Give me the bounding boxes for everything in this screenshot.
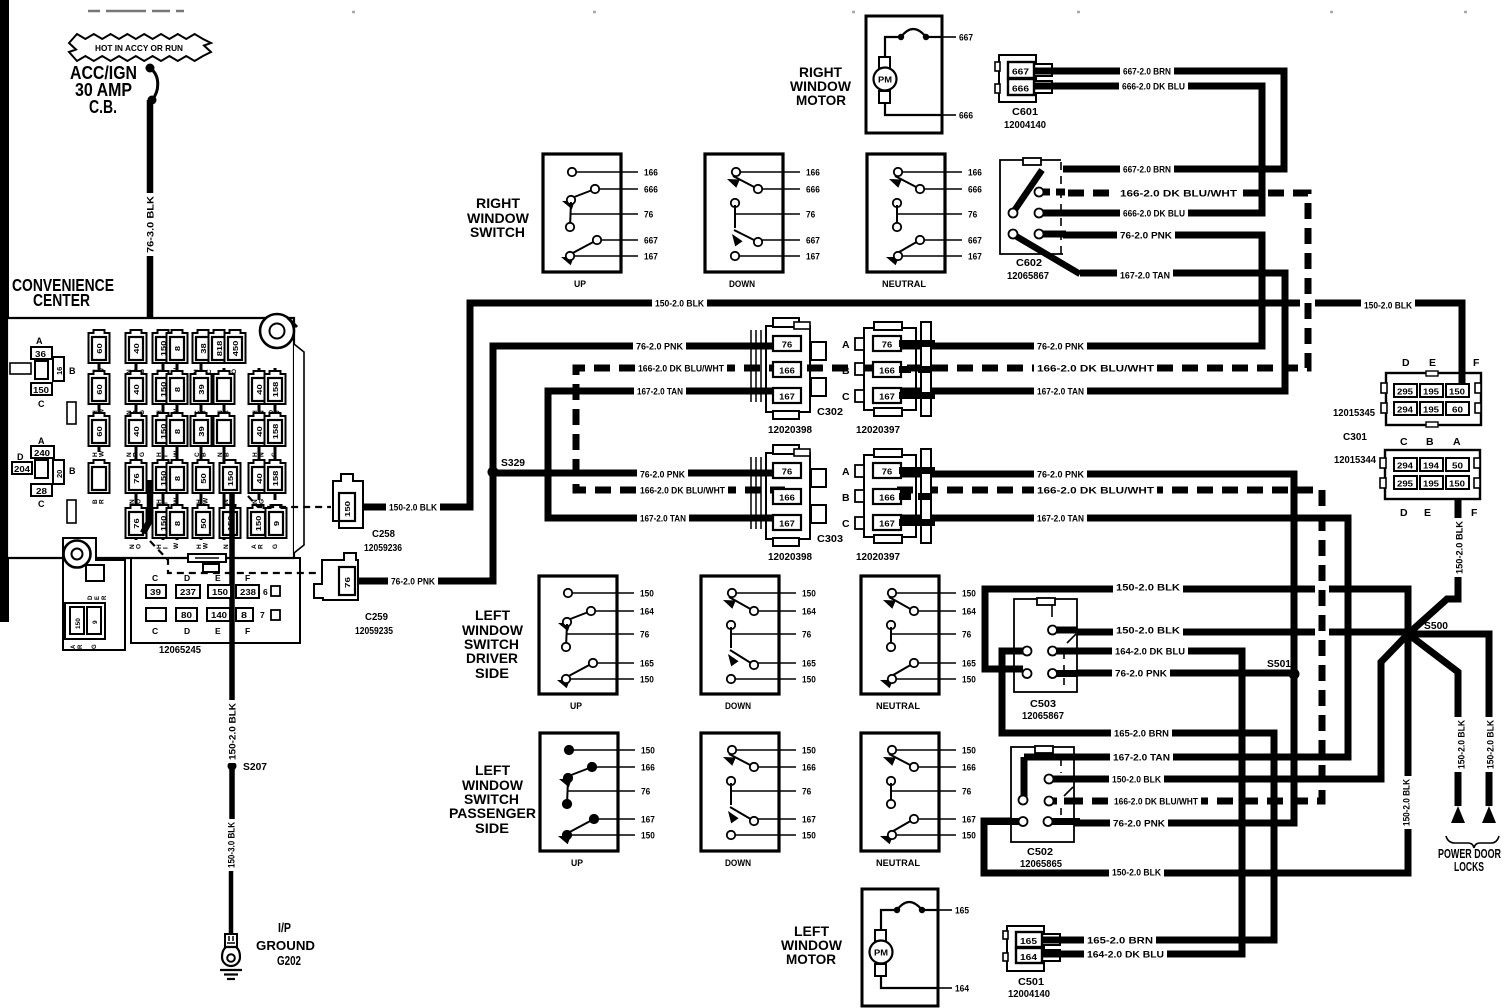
svg-text:76-2.0 PNK: 76-2.0 PNK [391, 576, 435, 587]
wire label 164-2.0 DK BLU at y651 [1112, 645, 1188, 658]
svg-text:GROUND: GROUND [256, 938, 315, 953]
wire 166-2.0 DK BLU/WHT riser C302-B/C303-B dashed [576, 368, 785, 490]
svg-text:165: 165 [955, 906, 969, 916]
svg-text:UP: UP [571, 858, 584, 869]
svg-text:666: 666 [806, 184, 820, 194]
svg-text:166: 166 [879, 367, 895, 376]
svg-text:C602: C602 [1016, 258, 1042, 269]
svg-text:76: 76 [802, 786, 811, 796]
svg-text:28: 28 [36, 487, 48, 496]
svg-text:A: A [36, 336, 43, 346]
svg-text:W: W [203, 542, 210, 549]
svg-text:W: W [173, 450, 180, 457]
fuse 38 at (203,348) [193, 330, 214, 374]
svg-text:SIDE: SIDE [475, 665, 509, 681]
svg-text:C258: C258 [372, 529, 395, 540]
tab connector 150/9 [86, 565, 104, 581]
svg-text:167-2.0 TAN: 167-2.0 TAN [1113, 752, 1170, 763]
blank slots [67, 402, 76, 424]
fuse 8 at (177,523) [167, 505, 188, 549]
svg-text:76: 76 [782, 468, 793, 477]
wire label 150-2.0 BLK at y779 [1109, 773, 1164, 786]
fuse 150 at (163,523) [153, 505, 174, 549]
switch left driver DOWN [701, 576, 816, 712]
svg-text:B: B [201, 452, 208, 457]
fuse 40 at (136,348) [126, 330, 147, 374]
svg-text:166: 166 [879, 494, 895, 503]
wire label 150-2.0 BLK at y587 [1113, 581, 1183, 594]
svg-text:166: 166 [641, 762, 655, 772]
wire 666-2.0 DK BLU C601 to C602 [1046, 86, 1262, 213]
svg-text:39: 39 [150, 588, 162, 597]
svg-text:76: 76 [962, 629, 971, 639]
wire label 150-2.0 BLK at y872 [1109, 866, 1164, 879]
svg-text:76: 76 [132, 473, 141, 483]
svg-text:PASSENGER: PASSENGER [449, 805, 536, 821]
wire label 76-2.0 PNK at y346 [1034, 340, 1087, 353]
svg-text:150: 150 [640, 674, 654, 684]
connector C602 [1000, 160, 1063, 254]
svg-text:B: B [224, 452, 231, 457]
svg-text:150: 150 [962, 830, 976, 840]
svg-text:76-2.0 PNK: 76-2.0 PNK [1115, 668, 1167, 679]
svg-text:C: C [152, 626, 158, 636]
connector C502 [1011, 747, 1074, 842]
svg-text:E: E [1429, 357, 1436, 369]
connector pair C302 [751, 318, 935, 419]
svg-text:MOTOR: MOTOR [786, 951, 836, 967]
wire 150-2.0 BLK S500 to power door lock left [1408, 634, 1458, 806]
svg-text:12004140: 12004140 [1004, 120, 1046, 131]
connector C501 [1007, 926, 1044, 971]
wire label 150-2.0 BLK S500 down [1400, 776, 1413, 829]
svg-text:818: 818 [215, 341, 224, 357]
svg-text:150: 150 [641, 745, 655, 755]
wire 76-3.0 BLK into fuse 76 [143, 480, 150, 533]
wire label 76-2.0 PNK at y346 [633, 340, 686, 353]
svg-text:167-2.0 TAN: 167-2.0 TAN [637, 386, 683, 397]
svg-text:76-2.0 PNK: 76-2.0 PNK [640, 469, 685, 480]
svg-text:C: C [842, 391, 850, 403]
svg-text:12020398: 12020398 [768, 425, 812, 436]
svg-text:8: 8 [173, 521, 182, 526]
wire 76-2.0 PNK S329 to C303-A [493, 470, 785, 477]
left window motor [862, 889, 969, 1006]
wire 76-2.0 PNK C259 riser to C302-A [357, 346, 785, 581]
wire 150-2.0 BLK S500 to power door lock right [1408, 634, 1489, 806]
wire label 667-2.0 BRN at y71 [1120, 65, 1174, 78]
fuse 40 at (136,431) [126, 413, 147, 457]
fuse 40 at (259,389) [249, 371, 270, 415]
svg-text:D: D [184, 626, 190, 636]
svg-text:164: 164 [802, 606, 816, 616]
svg-text:76: 76 [640, 629, 649, 639]
svg-text:9: 9 [92, 620, 99, 624]
svg-text:666: 666 [959, 111, 973, 121]
wire label 166-2.0 DK BLU/WHT at y368 [635, 362, 727, 375]
svg-text:12015345: 12015345 [1333, 408, 1375, 419]
svg-text:D: D [184, 573, 190, 583]
svg-text:165-2.0 BRN: 165-2.0 BRN [1114, 728, 1169, 739]
svg-text:150: 150 [226, 471, 235, 487]
fuse 60 at (99,348) [89, 330, 110, 374]
svg-text:C601: C601 [1012, 107, 1038, 118]
wire label 150-2.0 BLK PDL left [1455, 717, 1468, 772]
wire label 166-2.0 DK BLU/WHT at y801 [1111, 795, 1201, 808]
fuse 150 at (258,523) [248, 505, 269, 549]
svg-text:667: 667 [959, 33, 973, 43]
svg-text:450: 450 [231, 341, 240, 357]
fuse 50 at (203,478) [193, 460, 214, 504]
svg-text:167: 167 [802, 814, 816, 824]
fuse 60 at (99,389) [89, 371, 110, 415]
circuit breaker symbol [146, 64, 155, 73]
svg-text:166: 166 [802, 762, 816, 772]
svg-text:150-2.0 BLK: 150-2.0 BLK [1116, 582, 1180, 593]
svg-text:667-2.0 BRN: 667-2.0 BRN [1123, 66, 1171, 77]
svg-text:RIGHT: RIGHT [476, 195, 520, 211]
wire label 166-2.0 DK BLU/WHT at y490 [637, 484, 728, 497]
svg-text:150: 150 [33, 386, 50, 395]
fuse 150 at (230,478) [220, 460, 241, 504]
svg-text:40: 40 [132, 343, 141, 353]
svg-text:12020397: 12020397 [856, 425, 900, 436]
wire 164-2.0 DK BLU C503 to C501 [1052, 651, 1242, 954]
svg-text:166-2.0 DK BLU/WHT: 166-2.0 DK BLU/WHT [1120, 188, 1237, 199]
svg-text:240: 240 [34, 449, 51, 458]
wire label 167-2.0 TAN at y391 [1034, 385, 1087, 398]
svg-text:158: 158 [271, 424, 280, 440]
svg-text:150: 150 [345, 501, 352, 517]
svg-text:150: 150 [1449, 388, 1466, 397]
svg-text:W: W [173, 497, 180, 504]
svg-text:150: 150 [212, 588, 229, 597]
svg-text:167: 167 [968, 251, 982, 261]
svg-text:150: 150 [802, 674, 816, 684]
svg-text:167: 167 [879, 393, 895, 402]
svg-text:167-2.0 TAN: 167-2.0 TAN [1037, 386, 1084, 397]
svg-text:76: 76 [641, 786, 650, 796]
fuse 150 at (163,478) [153, 460, 174, 504]
wire 76-2.0 PNK C503 to S501 [1052, 670, 1292, 677]
svg-text:76-3.0 BLK: 76-3.0 BLK [145, 196, 156, 253]
svg-text:LEFT: LEFT [475, 762, 510, 778]
svg-text:667: 667 [644, 235, 658, 245]
svg-text:LOCKS: LOCKS [1454, 859, 1484, 874]
svg-text:D: D [17, 452, 24, 462]
wire 150-2.0 BLK C301-F down to S500 [1408, 488, 1458, 634]
svg-text:C303: C303 [817, 534, 843, 545]
svg-text:40: 40 [255, 384, 264, 394]
svg-text:C259: C259 [365, 612, 388, 623]
switch left driver NEUTRAL [861, 576, 976, 712]
fuse blank at (99,478) [89, 460, 110, 504]
svg-text:167: 167 [779, 393, 795, 402]
svg-text:150-2.0 BLK: 150-2.0 BLK [1112, 774, 1161, 785]
svg-text:76: 76 [882, 468, 893, 477]
wire label 167-2.0 TAN at y518 [1034, 512, 1087, 525]
splice S207 [228, 762, 237, 771]
svg-text:B: B [1426, 436, 1434, 448]
svg-text:DRIVER: DRIVER [466, 650, 518, 666]
svg-text:G: G [92, 644, 98, 649]
svg-text:A: A [842, 466, 850, 478]
fuse 76 at (136,478) [126, 460, 147, 504]
svg-text:76: 76 [962, 786, 971, 796]
wire 167-2.0 TAN C602 to C302-C [897, 273, 1285, 391]
svg-text:165: 165 [1020, 937, 1038, 946]
page scan border line [0, 0, 9, 622]
connector C301 upper 12015345 [1386, 373, 1481, 425]
svg-text:165: 165 [962, 658, 976, 668]
power door locks arrows [1451, 806, 1465, 823]
svg-text:W: W [173, 542, 180, 549]
fuse 8 at (177,348) [167, 330, 188, 374]
svg-text:166-2.0 DK BLU/WHT: 166-2.0 DK BLU/WHT [638, 363, 724, 374]
wire 150-2.0 BLK C503 to S500 [1051, 629, 1408, 636]
svg-text:666-2.0 DK BLU: 666-2.0 DK BLU [1122, 81, 1185, 92]
wire label 166-2.0 DK BLU/WHT at y368 [1034, 362, 1157, 375]
fuse 39 at (201,389) [191, 371, 212, 415]
svg-text:E: E [1424, 507, 1431, 519]
svg-text:295: 295 [1397, 480, 1414, 489]
wire label 167-2.0 TAN at y391 [634, 385, 686, 398]
svg-text:80: 80 [181, 611, 193, 620]
wire 76-3.0 BLK label [144, 193, 157, 256]
dashed lead to C259 [150, 541, 316, 573]
svg-text:167: 167 [879, 520, 895, 529]
svg-text:N: N [259, 452, 266, 457]
svg-text:O: O [136, 544, 143, 549]
svg-text:150-2.0 BLK: 150-2.0 BLK [1401, 779, 1412, 826]
svg-text:76-2.0 PNK: 76-2.0 PNK [636, 341, 683, 352]
svg-text:167-2.0 TAN: 167-2.0 TAN [1037, 513, 1084, 524]
ground symbol G202 [220, 970, 242, 979]
wire 150-2.0 BLK label [226, 700, 239, 763]
svg-text:60: 60 [95, 343, 104, 353]
svg-text:166-2.0 DK BLU/WHT: 166-2.0 DK BLU/WHT [1114, 796, 1198, 807]
fuse block lower panel [146, 554, 280, 636]
svg-text:C: C [152, 573, 158, 583]
fuse 158 at (275,389) [265, 371, 286, 415]
svg-text:LEFT: LEFT [475, 607, 510, 623]
svg-text:S207: S207 [243, 761, 267, 773]
svg-text:C.B.: C.B. [89, 97, 117, 117]
svg-text:C502: C502 [1027, 847, 1053, 858]
svg-text:W: W [99, 450, 106, 457]
svg-text:12020397: 12020397 [856, 552, 900, 563]
switch left driver UP [539, 576, 654, 712]
wire label 76-2.0 PNK at y581 [388, 575, 438, 588]
svg-text:166: 166 [962, 762, 976, 772]
svg-text:MOTOR: MOTOR [796, 92, 846, 108]
svg-text:C: C [38, 399, 45, 409]
svg-text:G: G [259, 499, 266, 504]
svg-text:150: 150 [1449, 480, 1466, 489]
svg-text:8: 8 [173, 346, 182, 351]
svg-text:NEUTRAL: NEUTRAL [876, 858, 920, 869]
svg-text:NEUTRAL: NEUTRAL [882, 279, 926, 290]
wire label 667-2.0 BRN at y169 [1120, 163, 1174, 176]
dashed lead to C258 [248, 496, 331, 507]
svg-text:60: 60 [1452, 406, 1464, 415]
svg-text:150: 150 [254, 516, 263, 532]
svg-text:12059236: 12059236 [364, 543, 402, 554]
svg-text:39: 39 [197, 426, 206, 436]
svg-text:150-2.0 BLK: 150-2.0 BLK [1485, 720, 1496, 769]
connector C301 lower 12015344 [1385, 450, 1480, 499]
svg-text:667: 667 [806, 235, 820, 245]
fuse 9 at (276,523) [266, 505, 287, 549]
svg-text:R: R [258, 544, 265, 549]
wire 166-2.0 DK BLU/WHT C602 to C302-B dashed [785, 193, 1308, 368]
svg-text:F: F [1471, 507, 1478, 519]
svg-text:C503: C503 [1030, 699, 1056, 710]
svg-text:E: E [215, 573, 221, 583]
svg-text:SWITCH: SWITCH [470, 224, 525, 240]
svg-text:60: 60 [95, 384, 104, 394]
fuse 40 at (259,431) [249, 413, 270, 457]
svg-text:150: 150 [962, 745, 976, 755]
svg-text:R: R [102, 595, 108, 600]
svg-text:76-2.0 PNK: 76-2.0 PNK [1037, 469, 1084, 480]
svg-text:167-2.0 TAN: 167-2.0 TAN [1120, 270, 1170, 281]
svg-text:667: 667 [968, 235, 982, 245]
wire 150-2.0 BLK C258 to bus to C301-F [357, 303, 1462, 507]
fuse 150 at (163,389) [153, 371, 174, 415]
svg-text:12065867: 12065867 [1022, 711, 1064, 722]
svg-text:40: 40 [255, 426, 264, 436]
wire label 167-2.0 TAN at y275 [1117, 269, 1173, 282]
fuse 8 at (177,389) [167, 371, 188, 415]
svg-text:F: F [245, 626, 250, 636]
wire label 167-2.0 TAN at y518 [637, 512, 689, 525]
fuse 76 at (136,523) [126, 505, 147, 549]
wire 150-2.0 BLK S500 up loop to C503 [985, 589, 1408, 669]
svg-text:167: 167 [806, 251, 820, 261]
wire 76-3.0 BLK [147, 100, 154, 480]
svg-text:166: 166 [806, 167, 820, 177]
wire label 165-2.0 BRN at y940 [1084, 934, 1156, 947]
switch right window UP [543, 154, 658, 290]
svg-text:76-2.0 PNK: 76-2.0 PNK [1120, 230, 1172, 241]
connector C601 [999, 55, 1036, 102]
svg-text:PM: PM [878, 75, 892, 85]
wire 150-2.0 BLK S500 down to C502 loop [984, 634, 1408, 873]
fuse 158 at (275,478) [265, 460, 286, 493]
svg-text:238: 238 [240, 588, 257, 597]
svg-text:A: A [1453, 436, 1461, 448]
svg-text:C: C [1400, 436, 1408, 448]
fuse 8 at (177,431) [167, 413, 188, 457]
fuse blank at (224,431) [214, 413, 235, 457]
right window motor [866, 16, 973, 133]
svg-text:39: 39 [197, 384, 206, 394]
wire label 666-2.0 DK BLU at y86 [1119, 80, 1188, 93]
svg-text:165: 165 [802, 658, 816, 668]
svg-text:S500: S500 [1424, 620, 1448, 632]
mounting hole top-right [260, 314, 294, 348]
svg-text:150-2.0 BLK: 150-2.0 BLK [1116, 625, 1180, 636]
svg-text:667: 667 [1012, 68, 1030, 77]
switch left passenger NEUTRAL [861, 733, 976, 869]
wire label 150-2.0 BLK at y507 [386, 501, 440, 514]
svg-text:150-2.0 BLK: 150-2.0 BLK [1456, 720, 1467, 769]
svg-text:9: 9 [272, 521, 281, 526]
svg-text:166-2.0 DK BLU/WHT: 166-2.0 DK BLU/WHT [1037, 485, 1154, 496]
svg-text:A: A [842, 339, 850, 351]
svg-text:150-2.0 BLK: 150-2.0 BLK [655, 298, 704, 309]
svg-text:12020398: 12020398 [768, 552, 812, 563]
svg-text:G: G [272, 544, 279, 549]
svg-text:G202: G202 [277, 953, 301, 968]
svg-text:8: 8 [241, 611, 248, 620]
svg-text:8: 8 [173, 387, 182, 392]
svg-text:12065867: 12065867 [1007, 271, 1049, 282]
fuse 158 at (275,431) [265, 413, 286, 457]
svg-text:7: 7 [260, 610, 265, 620]
svg-text:76: 76 [802, 629, 811, 639]
wire 165-2.0 BRN C503 loop to C501 [1002, 651, 1274, 940]
svg-text:B: B [69, 366, 76, 376]
svg-text:167: 167 [779, 520, 795, 529]
wire 667-2.0 BRN C601 to C602 [1042, 71, 1284, 169]
svg-text:166-2.0 DK BLU/WHT: 166-2.0 DK BLU/WHT [640, 485, 725, 496]
fuse column bus lines [99, 330, 275, 540]
svg-text:I/P: I/P [278, 920, 291, 935]
power source banner HOT IN ACCY OR RUN [69, 34, 211, 61]
wire label 76-2.0 PNK at y673 [1112, 667, 1170, 680]
svg-text:76: 76 [644, 209, 653, 219]
svg-text:E: E [95, 596, 101, 600]
svg-text:8: 8 [173, 476, 182, 481]
convenience center outline [7, 318, 304, 558]
fuse blank at (224,389) [214, 371, 235, 415]
svg-text:NEUTRAL: NEUTRAL [876, 701, 920, 712]
svg-text:76: 76 [882, 341, 893, 350]
svg-text:166-2.0 DK BLU/WHT: 166-2.0 DK BLU/WHT [1037, 363, 1154, 374]
svg-text:A: A [71, 644, 77, 649]
wire 150-3.0 BLK label [225, 819, 238, 871]
svg-text:158: 158 [271, 382, 280, 398]
ground terminal [225, 934, 237, 947]
fuse 818 at (219,348) [209, 330, 230, 363]
svg-text:R: R [99, 499, 106, 504]
svg-text:W: W [203, 497, 210, 504]
wire 150-2.0 BLK stub into C301-F [1459, 374, 1466, 383]
svg-text:38: 38 [199, 343, 208, 353]
svg-text:294: 294 [1397, 462, 1414, 471]
svg-text:CENTER: CENTER [33, 290, 90, 310]
fuse 150 at (230,523) [220, 505, 241, 549]
svg-text:150-2.0 BLK: 150-2.0 BLK [1364, 300, 1412, 311]
svg-text:A: A [38, 436, 45, 446]
svg-text:164: 164 [955, 984, 969, 994]
svg-text:12015344: 12015344 [1334, 455, 1376, 466]
svg-text:D: D [1402, 357, 1410, 369]
svg-text:76-2.0 PNK: 76-2.0 PNK [1113, 818, 1165, 829]
svg-text:164: 164 [1020, 953, 1038, 962]
svg-text:150: 150 [802, 588, 816, 598]
svg-text:166: 166 [968, 167, 982, 177]
svg-text:666-2.0 DK BLU: 666-2.0 DK BLU [1123, 208, 1185, 219]
fuse 150 at (163,431) [153, 413, 174, 457]
wire label 165-2.0 BRN at y733 [1111, 727, 1172, 740]
svg-text:B: B [842, 492, 850, 504]
svg-text:150: 150 [640, 588, 654, 598]
gaps in rows at dashed crossing x1322 [1315, 581, 1329, 593]
svg-text:150: 150 [802, 830, 816, 840]
